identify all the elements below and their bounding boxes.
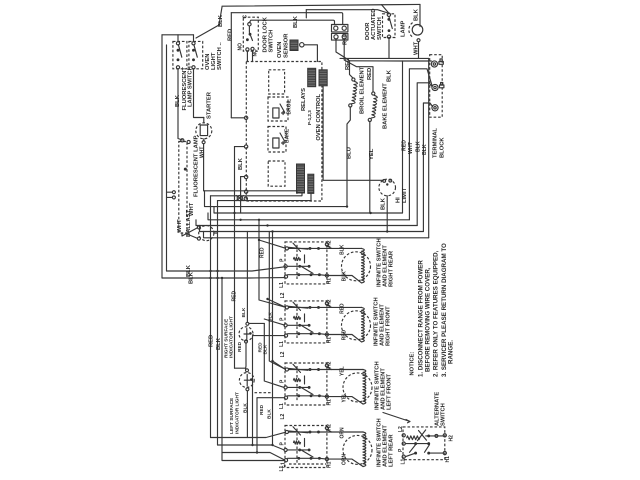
svg-text:RIGHT REAR: RIGHT REAR	[389, 250, 395, 287]
terminal S1 P	[284, 265, 287, 268]
svg-text:BLK: BLK	[293, 15, 299, 28]
wire switch feed v1	[259, 220, 285, 307]
wire left rail BLK	[161, 35, 163, 278]
junction dot feed b	[266, 224, 268, 226]
oven sensor connector bar	[290, 40, 298, 51]
oven control box	[246, 62, 322, 202]
bimetal S4	[294, 441, 301, 444]
svg-text:LAMP SWITCH: LAMP SWITCH	[188, 66, 194, 107]
switch blade S4 a	[289, 431, 309, 433]
element S2 circle	[342, 311, 371, 340]
contact dot S1 b	[177, 58, 180, 61]
svg-text:WHT: WHT	[200, 147, 206, 158]
svg-text:BLK: BLK	[422, 144, 428, 155]
wire S4 H2 link	[327, 430, 332, 433]
heating element BAKE coil	[371, 95, 377, 118]
wire bus y201	[218, 193, 312, 200]
wire left light down BLK	[246, 391, 248, 438]
plug symbol P2	[237, 195, 242, 200]
svg-text:BLK: BLK	[243, 403, 249, 413]
terminal left light top	[246, 369, 249, 372]
connector J2 pin a	[334, 35, 338, 39]
wire sensor to control	[304, 45, 317, 62]
terminal right light top	[246, 322, 249, 325]
wire g3 L1 feed	[257, 398, 284, 453]
terminal S1 line-in	[285, 247, 288, 250]
wire bus y207	[205, 191, 348, 207]
wire L1 dashed bottom	[289, 463, 326, 465]
junction dot g2 feed	[266, 298, 268, 300]
sensor resistor bar	[308, 68, 316, 86]
terminal S1 H1	[325, 274, 328, 277]
terminal S3 line-in	[285, 368, 288, 371]
wire left light feed bar	[235, 367, 246, 369]
switch S2 oven light switch box	[189, 41, 203, 68]
svg-text:LIMIT: LIMIT	[402, 187, 408, 203]
internal tick S2	[304, 314, 306, 322]
pointer line to alternate switch	[383, 413, 410, 423]
svg-text:TERMINAL: TERMINAL	[433, 128, 439, 158]
ballast circle	[199, 226, 214, 241]
wire ballast to bus	[214, 232, 218, 234]
svg-text:H1: H1	[445, 456, 451, 463]
bimetal S3	[294, 378, 301, 381]
contact dot S2 b	[192, 58, 195, 61]
terminal S2 P	[284, 324, 287, 327]
alt row1 line	[426, 435, 444, 437]
wire stub to oven light switch	[193, 35, 195, 42]
wire S1 element top	[319, 247, 362, 249]
alt contact dots row3	[414, 452, 417, 455]
terminal S4 P	[284, 448, 287, 451]
wire bottom bus y452	[222, 453, 284, 460]
terminal S3 L1	[284, 396, 287, 399]
wire WHT bus	[340, 57, 429, 59]
terminal bolt 2	[440, 85, 444, 88]
svg-text:L2: L2	[280, 292, 286, 298]
wire starter bottom stub	[203, 139, 205, 141]
wire switch feed v3	[269, 232, 285, 370]
wire g2 line-in feed	[268, 299, 286, 307]
svg-text:BLK: BLK	[342, 271, 348, 282]
terminal ballast pin upper	[197, 226, 200, 229]
junction dot third vertical	[221, 277, 223, 279]
wire top edge of lamp-switch frame	[162, 34, 194, 36]
svg-text:L1: L1	[279, 282, 285, 288]
svg-text:RED: RED	[209, 335, 215, 347]
terminal S1 L1	[284, 275, 287, 278]
wire tube pin stub lower	[167, 196, 173, 198]
element S1 circle	[342, 252, 371, 281]
element S1 coil	[362, 248, 365, 283]
svg-text:SWITCH: SWITCH	[441, 403, 447, 426]
svg-text:ORN: ORN	[340, 427, 346, 439]
switch blade S1 c	[301, 266, 313, 273]
wire g1 line-in feed	[259, 240, 285, 248]
wire BLK bus y278	[162, 277, 284, 279]
terminal tube pin left upper	[172, 191, 175, 194]
ribbon connector bar 2	[308, 174, 314, 193]
switch blade S3 b	[293, 364, 301, 372]
terminal lamp tube pin A	[181, 139, 184, 142]
svg-text:LEFT REAR: LEFT REAR	[389, 434, 395, 467]
infinite switch S4 box	[285, 426, 327, 468]
switch blade door actuated	[389, 17, 392, 29]
terminal alt L2	[402, 434, 405, 437]
svg-text:C: C	[243, 15, 249, 19]
svg-text:YEL: YEL	[369, 148, 375, 160]
svg-text:BLK: BLK	[381, 197, 387, 210]
terminal hi limit a	[383, 180, 386, 183]
wire S1 to fluorescent lamp	[178, 69, 182, 140]
svg-text:INDICATOR LIGHT: INDICATOR LIGHT	[229, 316, 235, 358]
terminal S4 H2	[325, 426, 328, 429]
terminal ballast pin lower	[197, 237, 200, 240]
terminal top of S1	[176, 42, 179, 45]
terminal S3 P	[284, 386, 287, 389]
svg-text:H2: H2	[449, 435, 455, 442]
wire door lock contact col	[248, 26, 250, 32]
wire J2a to RED line	[336, 40, 350, 61]
svg-text:2. REFER ONLY TO FEATURES EQUI: 2. REFER ONLY TO FEATURES EQUIPPED,	[433, 250, 440, 377]
svg-text:H1: H1	[327, 337, 333, 344]
contact dot door lock	[249, 33, 252, 36]
ribbon connector bar 1	[297, 164, 305, 193]
terminal door actuated top	[387, 13, 390, 16]
svg-text:BEFORE REMOVING WIRE COVER,: BEFORE REMOVING WIRE COVER,	[425, 267, 432, 372]
junction dot bus a	[209, 270, 211, 272]
switch door lock box	[243, 17, 258, 51]
switch S1 fluorescent lamp switch box	[173, 41, 187, 68]
wire RED long vertical	[210, 196, 212, 438]
terminal bottom of S2	[192, 66, 195, 69]
terminal NC	[251, 47, 254, 50]
svg-text:RED: RED	[228, 29, 234, 41]
terminal hi limit b	[389, 179, 392, 182]
wire BLK mid vertical	[240, 177, 242, 213]
wire S2 H2 link	[327, 305, 332, 308]
wire bus y238	[204, 232, 429, 238]
wire terminal 3 feed	[241, 176, 245, 178]
terminal alt H2	[443, 434, 446, 437]
svg-text:L2: L2	[280, 351, 286, 357]
terminal block lug 3	[432, 105, 438, 111]
element S3 coil	[363, 370, 366, 405]
svg-text:NO: NO	[238, 43, 244, 51]
junction dot bundle c	[386, 230, 388, 232]
svg-text:H2: H2	[327, 299, 333, 306]
wire S3 element top	[319, 369, 364, 371]
svg-text:RED: RED	[367, 68, 373, 80]
heating element BROIL coil	[352, 81, 358, 104]
wire BLK riser a	[417, 83, 432, 226]
alt blade diag a	[410, 445, 416, 453]
frame F3 to door actuated switch	[306, 10, 389, 14]
svg-text:LEFT FRONT: LEFT FRONT	[387, 373, 393, 410]
svg-text:H1: H1	[327, 461, 333, 468]
junction dot bundle b	[369, 212, 371, 214]
wire P3 to hi limit	[323, 86, 383, 181]
svg-text:STARTER: STARTER	[207, 91, 213, 119]
terminal right light bottom	[245, 340, 248, 343]
wire tube pin stub upper	[167, 191, 173, 193]
svg-text:BLK: BLK	[216, 337, 222, 350]
wire g3 line-in feed	[273, 361, 286, 369]
wire bottom bus y460	[222, 453, 284, 461]
left indicator light circle	[239, 373, 254, 388]
wire V-drop to door actuated switch	[382, 5, 389, 14]
wire S1 internal rows	[287, 248, 319, 274]
junction dot bus b	[216, 270, 218, 272]
wire door actuated to WHT bus	[388, 39, 390, 59]
terminal bolt 1	[439, 62, 443, 65]
junction dot bus c	[209, 277, 211, 279]
wire tube to ballast upper	[182, 228, 198, 236]
wire WHT starter down	[203, 144, 205, 191]
terminal broil bottom	[349, 104, 352, 107]
svg-text:L1: L1	[401, 458, 407, 464]
terminal S3 H2	[325, 364, 328, 367]
svg-text:RIGHT FRONT: RIGHT FRONT	[386, 306, 392, 346]
svg-text:BLK: BLK	[267, 409, 273, 419]
internal dashed col S2	[296, 304, 298, 340]
svg-text:BLK: BLK	[263, 344, 269, 354]
wire bus y220	[208, 213, 409, 220]
svg-text:BROIL: BROIL	[287, 99, 293, 115]
fluorescent lamp tube outline	[179, 142, 187, 234]
junction dot g2L1	[251, 444, 253, 446]
wire S4 element top	[319, 431, 364, 433]
svg-text:BLK: BLK	[414, 8, 420, 21]
alternate switch box	[403, 427, 445, 460]
wire S3 internal rows	[287, 370, 319, 396]
wire BLK bus y271	[167, 267, 286, 271]
switch blade S2 a	[289, 306, 309, 308]
wire J2b to bake element	[344, 40, 373, 92]
svg-text:BAKE ELEMENT: BAKE ELEMENT	[383, 83, 389, 129]
connector J1 upper	[332, 25, 348, 32]
wire BLK long vertical	[217, 201, 219, 445]
clock sub-box	[268, 161, 285, 186]
svg-text:LEFT SURFACE: LEFT SURFACE	[229, 397, 235, 434]
svg-text:RED: RED	[402, 140, 408, 151]
wire NO to oven control	[246, 51, 248, 62]
right light inner glyph	[244, 329, 249, 340]
wire S4 internal rows	[287, 432, 319, 458]
internal tick S4	[304, 439, 306, 447]
contact dots S3	[309, 368, 312, 371]
svg-text:P-1,2,3: P-1,2,3	[307, 110, 312, 125]
connector J1 pin a	[334, 26, 338, 30]
junction dot g3 feed	[271, 360, 273, 362]
svg-text:WHT: WHT	[408, 141, 414, 154]
element S3 circle	[343, 373, 372, 402]
terminal S2 H1	[325, 333, 328, 336]
relay K1 coil	[273, 108, 279, 118]
terminal bake top	[372, 92, 375, 95]
svg-text:L2: L2	[398, 426, 404, 432]
wire g2 L1 feed	[253, 336, 285, 445]
terminal left light bottom	[246, 388, 249, 391]
contact dot door actuated a	[387, 18, 390, 21]
svg-text:H1: H1	[327, 399, 333, 406]
wire left light dashes right	[255, 392, 271, 394]
wire BLU broil down	[347, 107, 350, 207]
terminal S4 L1	[284, 459, 287, 462]
wire S2 element bottom	[319, 334, 361, 342]
svg-text:NOTICE:: NOTICE:	[410, 352, 416, 376]
terminal alt P	[402, 442, 405, 445]
wire right light down	[245, 343, 248, 369]
relay K2 contact	[280, 133, 285, 145]
connector J2 lower	[332, 33, 348, 40]
oven lamp circle	[412, 25, 423, 36]
switch blade S4 c	[301, 450, 313, 457]
wire top BLK bus	[222, 4, 420, 6]
internal dashed col S1	[296, 245, 298, 281]
element S4 circle	[343, 435, 372, 464]
terminal block box	[430, 55, 443, 117]
svg-text:H2: H2	[327, 424, 333, 431]
terminal starter bottom	[202, 141, 205, 144]
terminal oven control 1	[244, 116, 247, 119]
svg-text:RED: RED	[260, 247, 266, 258]
wire F1 to terminal 1	[231, 117, 244, 119]
svg-text:BLK: BLK	[241, 307, 247, 317]
wire bottom bus y437	[211, 432, 286, 437]
oven lamp dashes	[409, 23, 413, 37]
switch blade S1 b	[293, 243, 301, 251]
wire bus y213	[214, 207, 403, 213]
starter inner capacitor	[200, 125, 207, 136]
svg-text:L1: L1	[281, 462, 287, 468]
terminal alt H1	[443, 452, 446, 455]
junction dot feed c	[271, 230, 273, 232]
svg-text:BAKE: BAKE	[285, 128, 291, 143]
svg-text:BLK: BLK	[340, 244, 346, 255]
wire RED line to riser	[350, 60, 403, 62]
wire S2 to starter	[194, 69, 204, 118]
svg-text:SWITCH: SWITCH	[377, 17, 383, 40]
terminal oven control 3	[244, 175, 247, 178]
terminal bottom of S1	[176, 66, 179, 69]
switch blade S2 c	[301, 325, 313, 332]
junction dot v3	[271, 444, 273, 446]
terminal S1 H2	[325, 243, 328, 246]
wire switch feed v2	[264, 323, 284, 387]
wire S2 element top	[319, 306, 362, 308]
wire F1 left drop RED	[230, 13, 232, 118]
svg-text:YEL: YEL	[342, 393, 348, 403]
terminal S3 H1	[325, 395, 328, 398]
svg-text:BLK: BLK	[238, 157, 244, 170]
terminal oven control 4	[244, 190, 247, 193]
internal dashed col S3	[296, 366, 298, 402]
junction dot bundle a	[346, 205, 348, 207]
internal tick S1	[304, 255, 306, 263]
infinite switch S2 box	[285, 301, 327, 343]
alt blade diag b	[425, 445, 430, 453]
terminal S4 H1	[325, 458, 328, 461]
svg-text:SWITCH ..: SWITCH ..	[217, 42, 223, 70]
wire bottom bus y445	[218, 445, 285, 450]
left light inner glyph	[244, 375, 250, 387]
display sub-box	[269, 70, 285, 94]
svg-text:BLK: BLK	[189, 271, 195, 284]
infinite switch S3 box	[285, 363, 327, 405]
wire F3 stub	[305, 10, 307, 18]
svg-text:FLUORESCENT LAMP: FLUORESCENT LAMP	[194, 135, 200, 197]
wire L1 RED riser	[403, 61, 432, 213]
alt contact dots row1	[427, 434, 430, 437]
element S2 coil	[362, 307, 365, 342]
svg-text:H1: H1	[327, 278, 333, 285]
relay K2 coil	[273, 138, 279, 148]
bimetal S1	[294, 257, 301, 260]
svg-text:OVEN CONTROL: OVEN CONTROL	[316, 93, 322, 140]
terminal broil top	[352, 78, 355, 81]
svg-text:LAMP: LAMP	[401, 20, 407, 37]
alt row3 line	[405, 453, 443, 457]
right indicator light circle	[239, 327, 253, 341]
terminal oven control 2	[244, 145, 247, 148]
wire BLK bus to bottom-left	[166, 45, 168, 271]
wire bus y231	[200, 226, 424, 232]
wire bus y191	[204, 191, 297, 194]
bimetal S2	[294, 316, 301, 319]
wire S4 element bottom	[319, 458, 363, 466]
svg-text:OVEN: OVEN	[277, 42, 283, 58]
switch blade S3 a	[289, 368, 309, 370]
wire top bus corner to lamp	[419, 4, 421, 26]
svg-text:INDICATOR LIGHT: INDICATOR LIGHT	[235, 392, 241, 434]
switch blade S1	[178, 45, 181, 57]
wire terminal 2 feed	[235, 146, 245, 148]
internal dashed col S4	[296, 429, 298, 465]
svg-text:RED: RED	[237, 341, 243, 352]
terminal door actuated bottom	[387, 35, 390, 38]
terminal S4 line-in	[285, 430, 288, 433]
wire broil top stub	[350, 61, 353, 78]
svg-text:NC: NC	[253, 49, 259, 57]
contact dots S4	[309, 431, 312, 434]
connector J1 pin b	[342, 26, 346, 30]
right light inner dot	[249, 332, 252, 335]
contact dot NO pole	[246, 38, 249, 41]
wire bus y225	[196, 220, 417, 226]
alt switch coil	[407, 436, 420, 440]
switch blade S4 b	[293, 427, 301, 435]
contact dots S2	[309, 306, 312, 309]
svg-text:RED: RED	[345, 58, 351, 70]
wire outer BLK drop	[428, 58, 430, 237]
wire bus y196	[211, 193, 303, 195]
wire right light bar	[249, 322, 264, 324]
wire BLK riser b	[423, 103, 432, 232]
terminal block lug 2	[432, 84, 438, 90]
oven sensor pin	[300, 43, 304, 47]
wire right light up	[246, 232, 248, 323]
terminal bake bottom	[368, 118, 371, 121]
wire tube to ballast lower	[187, 234, 198, 238]
terminal lamp bottom	[417, 39, 420, 42]
junction dot g3L1	[256, 451, 258, 453]
switch door actuated box	[383, 14, 396, 38]
svg-text:L1: L1	[279, 403, 285, 409]
junction dot g1 feed	[258, 239, 260, 241]
svg-text:YEL: YEL	[340, 366, 346, 376]
svg-text:HI: HI	[396, 197, 402, 203]
